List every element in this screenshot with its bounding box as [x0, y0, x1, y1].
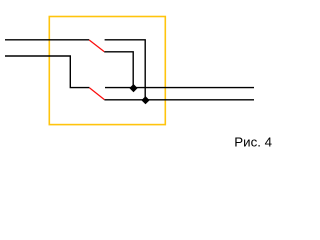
svg-text:Рис. 4: Рис. 4 [234, 134, 272, 149]
